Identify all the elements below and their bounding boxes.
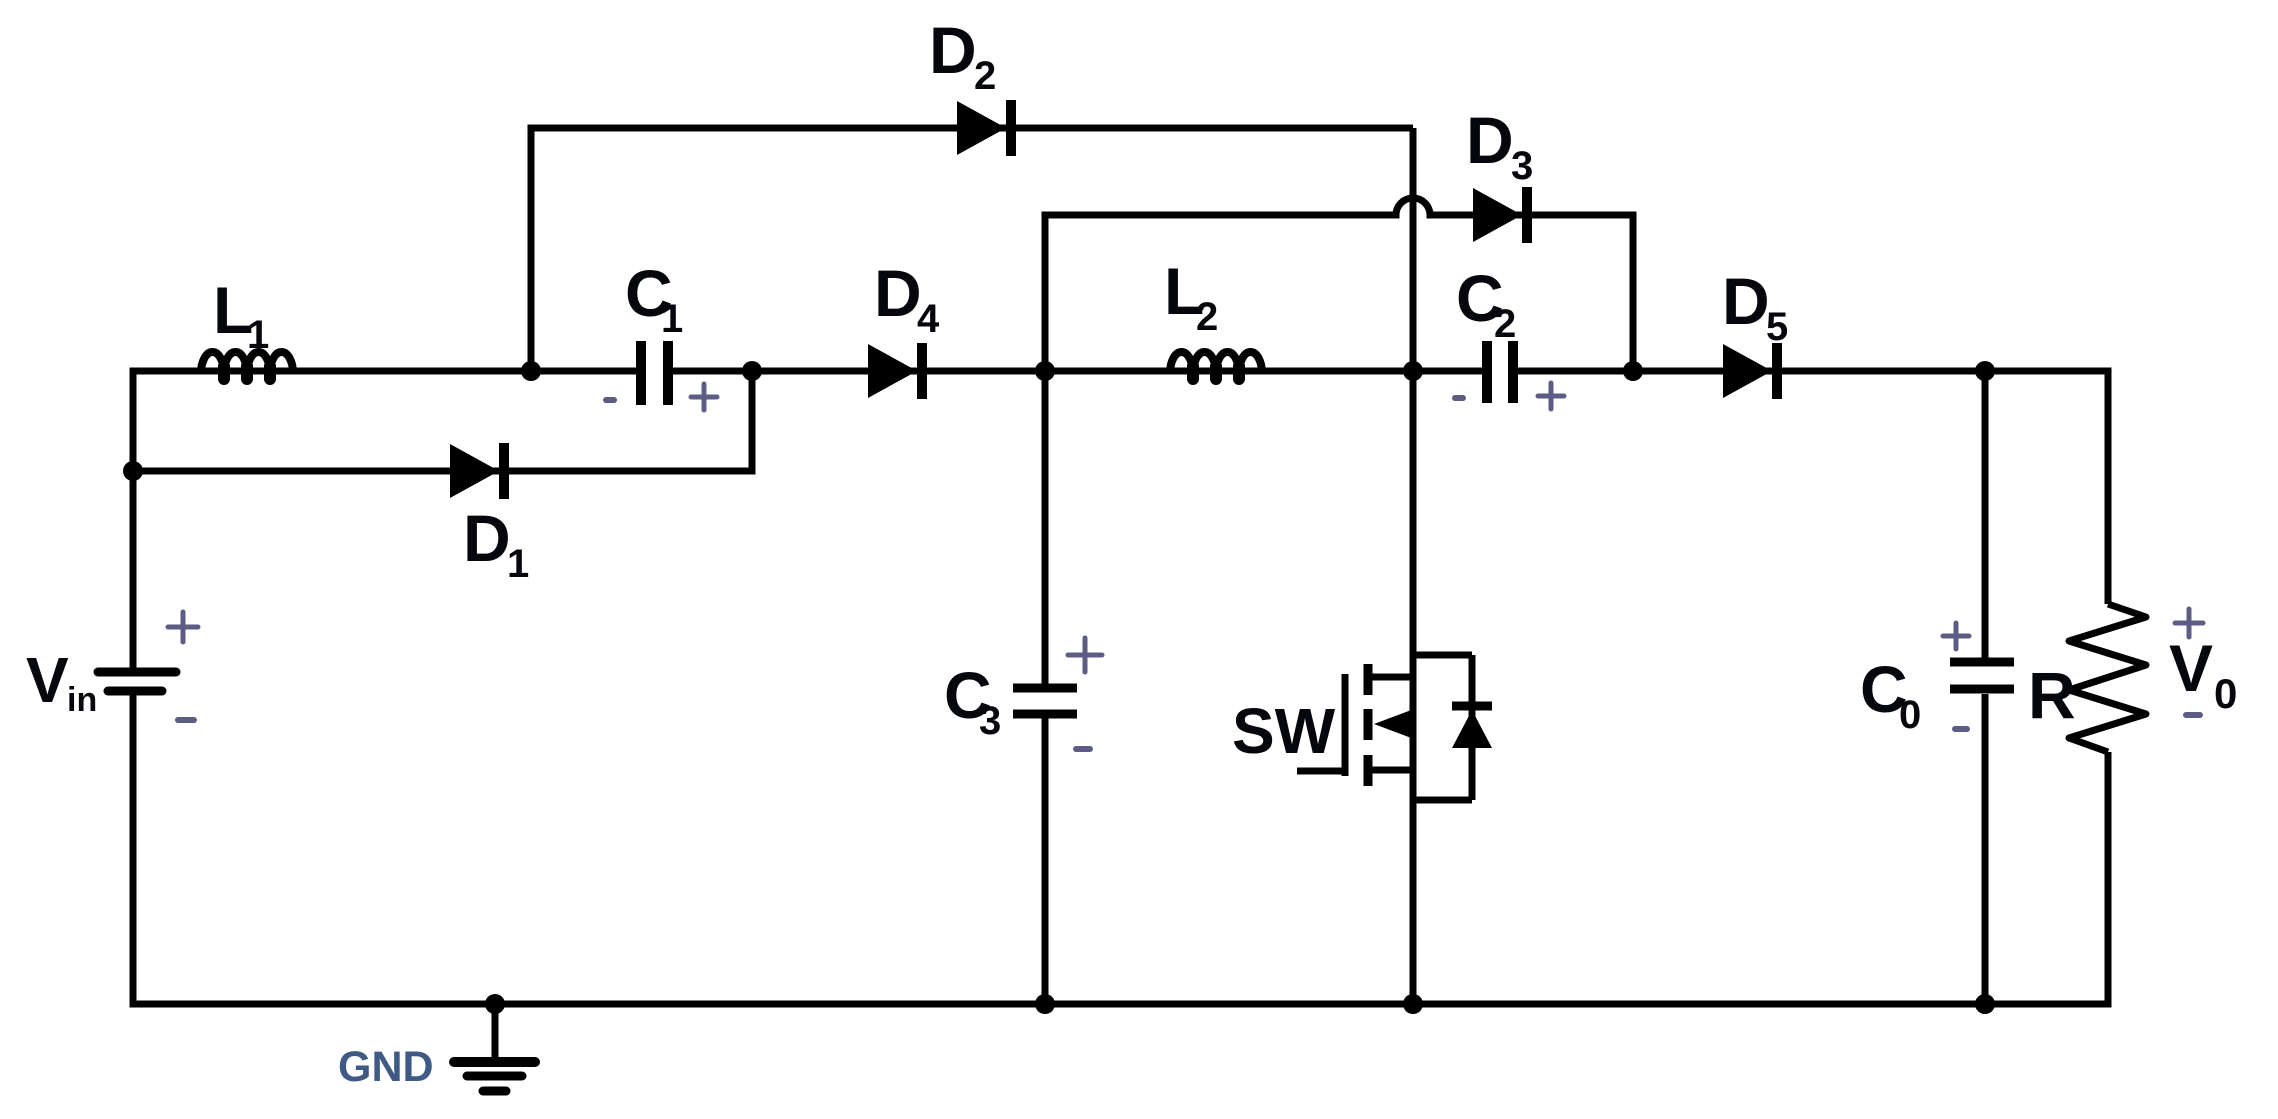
polarity V0 minus [2186,712,2200,718]
svg-text:3: 3 [1511,144,1533,188]
capacitor C0 [1950,662,2014,689]
svg-text:D: D [1466,103,1514,177]
svg-text:D: D [874,256,922,330]
node: GND tap [485,994,505,1014]
svg-text:0: 0 [1899,693,1921,737]
node: D2 branch / main bus [521,361,541,381]
node: L2 right / C2 left / SW drain [1403,361,1423,381]
body connection top/bottom [1413,655,1472,800]
diode D1 [450,443,504,499]
node: L2 left / C3 / D3 takeoff [1035,361,1055,381]
polarity C0 minus [1955,726,1967,732]
wire: full vertical x=1413 (D2 wire to bottom through switch) [1410,128,1417,1004]
svg-text:1: 1 [507,542,529,586]
wire: left rail upper + main bus left segment [133,371,636,669]
node: C1 right / D1 return [742,361,762,381]
wire: vertical x=1045 below main bus to C3 [1042,371,1049,1004]
polarity C0 plus [1943,623,1969,649]
svg-text:5: 5 [1766,305,1788,349]
wire: vertical x=1985 from main bus to C0 and down [1982,371,1989,1004]
polarity C3 plus [1068,638,1102,672]
svg-text:2: 2 [1494,302,1516,346]
drain connection [1368,674,1414,681]
body diode of SW [1452,706,1492,748]
wire: left rail lower + bottom ground bus + right vertical lower [133,694,2108,1004]
wire: right vertical upper + main bus right segment [1518,371,2108,604]
source connection [1368,767,1414,774]
SW arrow [1374,709,1414,739]
inductor L2 [1170,352,1262,379]
diode D2 [957,100,1011,156]
polarity C1 minus [606,397,614,403]
wire: D2 top branch (horizontal y=128 and vertical x=531) [531,128,1413,371]
capacitor C1 [641,341,668,405]
node: D1 takeoff on left rail [123,461,143,481]
polarity C2 minus [1455,395,1463,401]
polarity Vin minus [178,717,194,723]
battery Vin [98,672,176,691]
polarity C1 plus [691,384,717,410]
diode D5 [1723,343,1777,399]
ground GND [454,1004,535,1091]
svg-text:D: D [929,13,977,87]
polarity Vin plus [168,612,198,642]
svg-text:SW: SW [1232,695,1336,767]
svg-text:0: 0 [2214,670,2237,717]
svg-text:V: V [26,644,69,716]
node: D3 return [1623,361,1643,381]
inductor L1 [201,352,293,379]
svg-text:3: 3 [979,699,1001,743]
polarity C2 plus [1538,383,1564,409]
channel dashes [1364,664,1373,786]
transistor SW (N-MOSFET) [1297,655,1472,800]
polarity C3 minus [1076,746,1090,752]
node: SW source bottom [1403,994,1423,1014]
diode D4 [868,343,922,399]
diode D3 [1473,187,1527,243]
node: C3 bottom [1035,994,1055,1014]
svg-text:1: 1 [661,297,683,341]
svg-text:2: 2 [1196,295,1218,339]
svg-text:D: D [1722,264,1770,338]
capacitor C3 [1013,688,1077,714]
capacitor C2 [1487,341,1513,403]
svg-text:4: 4 [917,297,940,341]
wire: D1 branch + vertical up to node at x=752 [133,371,752,471]
resistor R [2069,604,2146,752]
svg-text:GND: GND [338,1043,434,1091]
node: C0 bottom [1975,994,1995,1014]
svg-text:1: 1 [247,313,269,357]
svg-text:V: V [2169,631,2213,705]
svg-text:in: in [67,681,97,719]
node: C0 top [1975,361,1995,381]
svg-text:R: R [2028,658,2076,732]
wire: main bus middle segment [673,368,1482,375]
gate lead and gate bar [1297,674,1345,776]
polarity V0 plus [2175,609,2203,637]
svg-text:2: 2 [974,54,996,98]
wire: D3 branch with hop over vertical at x=1413 [1045,198,1633,371]
svg-text:D: D [463,501,511,575]
